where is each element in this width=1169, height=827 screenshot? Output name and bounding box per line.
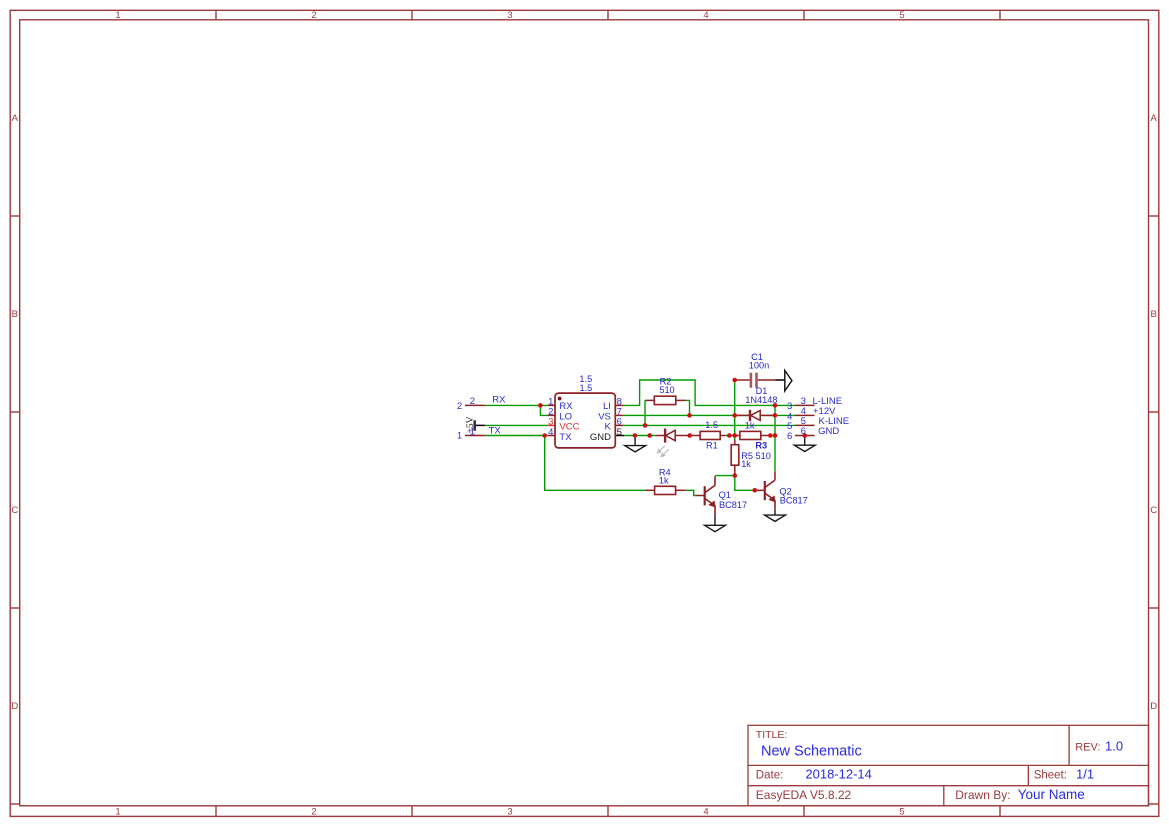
svg-text:3: 3 <box>507 807 512 818</box>
svg-text:TX: TX <box>489 426 502 437</box>
svg-text:2018-12-14: 2018-12-14 <box>805 767 872 782</box>
svg-text:BC817: BC817 <box>780 495 808 505</box>
svg-text:Q1: Q1 <box>719 490 731 500</box>
svg-text:1.5: 1.5 <box>580 383 593 393</box>
svg-text:6: 6 <box>787 431 792 442</box>
svg-text:Drawn By:: Drawn By: <box>955 788 1010 802</box>
svg-text:2: 2 <box>311 10 316 21</box>
svg-text:A: A <box>1151 113 1158 124</box>
svg-text:1k: 1k <box>741 459 751 469</box>
svg-text:100n: 100n <box>749 361 769 371</box>
svg-text:5: 5 <box>899 10 904 21</box>
svg-text:3: 3 <box>507 10 512 21</box>
svg-text:5: 5 <box>617 427 622 438</box>
svg-text:Sheet:: Sheet: <box>1034 770 1067 782</box>
svg-text:4: 4 <box>703 10 708 21</box>
svg-text:REV:: REV: <box>1075 741 1100 753</box>
svg-text:New Schematic: New Schematic <box>761 744 862 760</box>
svg-text:EasyEDA V5.8.22: EasyEDA V5.8.22 <box>756 788 852 802</box>
svg-text:TX: TX <box>559 432 572 443</box>
svg-text:4: 4 <box>703 807 708 818</box>
svg-text:GND: GND <box>818 426 839 437</box>
svg-text:2: 2 <box>470 396 475 407</box>
svg-text:2: 2 <box>457 401 462 412</box>
svg-text:GND: GND <box>590 432 611 443</box>
svg-text:1: 1 <box>457 430 462 441</box>
svg-text:1: 1 <box>115 10 120 21</box>
svg-text:C: C <box>11 505 18 516</box>
svg-text:4: 4 <box>548 427 553 438</box>
svg-text:1.0: 1.0 <box>1105 738 1123 753</box>
svg-text:2: 2 <box>311 807 316 818</box>
svg-text:1N4148: 1N4148 <box>745 395 777 405</box>
svg-text:1: 1 <box>115 807 120 818</box>
svg-text:5: 5 <box>899 807 904 818</box>
svg-text:+5V: +5V <box>466 416 476 433</box>
svg-text:D: D <box>11 701 18 712</box>
svg-text:R3: R3 <box>755 440 767 450</box>
svg-text:TITLE:: TITLE: <box>756 729 788 741</box>
svg-text:C: C <box>1150 505 1157 516</box>
svg-text:510: 510 <box>659 385 674 395</box>
svg-text:1k: 1k <box>659 475 669 485</box>
svg-text:A: A <box>12 113 19 124</box>
svg-text:D: D <box>1150 701 1157 712</box>
svg-text:BC817: BC817 <box>719 500 747 510</box>
svg-text:B: B <box>1151 309 1157 320</box>
svg-text:Your Name: Your Name <box>1018 787 1085 802</box>
svg-text:R1: R1 <box>706 441 718 451</box>
svg-text:Date:: Date: <box>756 770 784 782</box>
svg-text:1/1: 1/1 <box>1076 767 1094 782</box>
svg-text:1.5: 1.5 <box>705 420 718 430</box>
svg-text:1k: 1k <box>745 420 755 430</box>
svg-text:6: 6 <box>801 426 806 437</box>
svg-text:RX: RX <box>492 394 506 405</box>
svg-text:B: B <box>12 309 18 320</box>
